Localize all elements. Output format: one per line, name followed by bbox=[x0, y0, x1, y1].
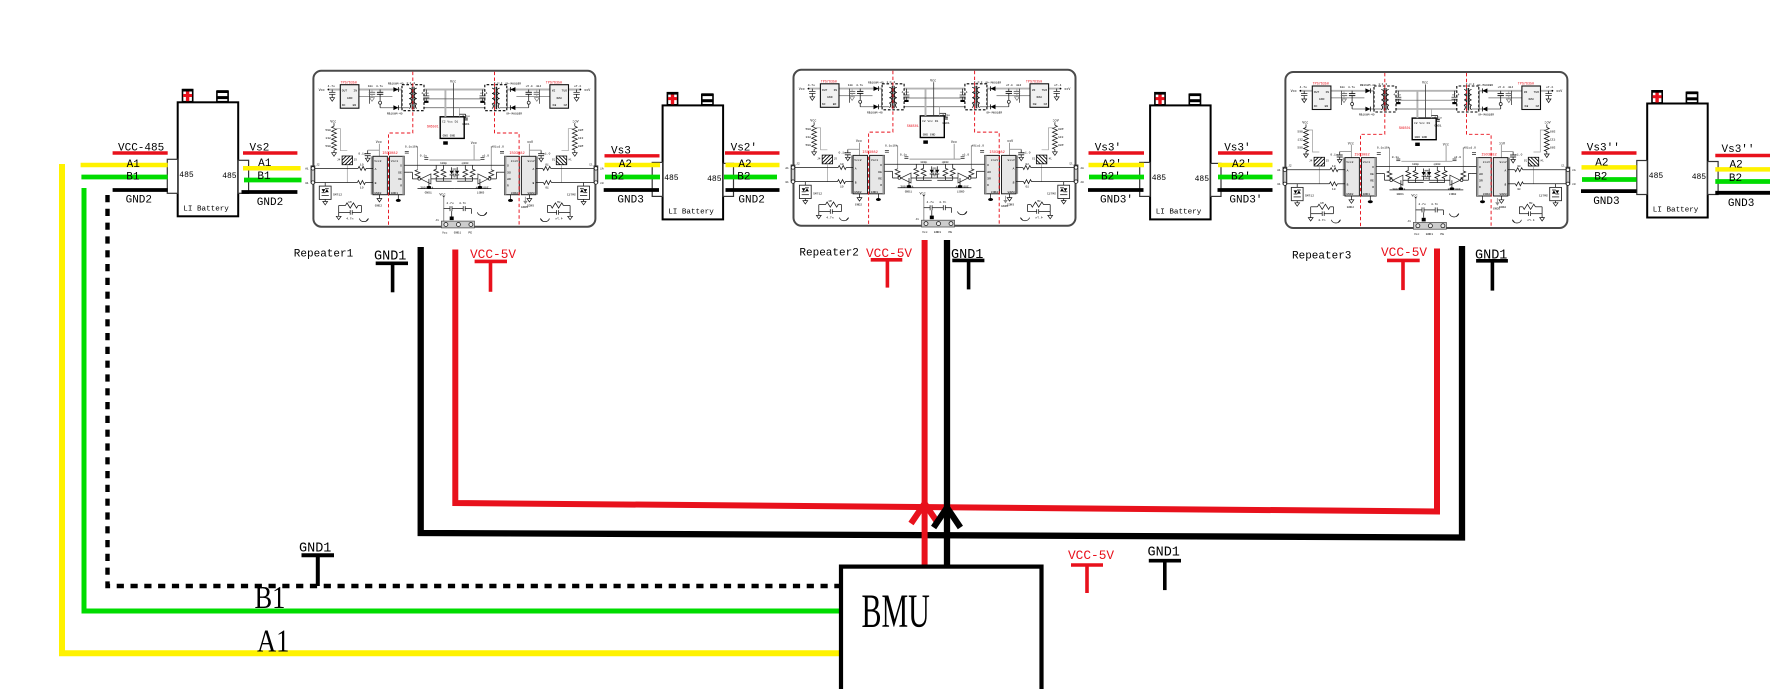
svg-text:Vs2': Vs2' bbox=[731, 143, 757, 155]
wire A1 bus (yellow) bbox=[62, 164, 841, 653]
battery1 right stubs bbox=[242, 143, 302, 210]
svg-text:GND3: GND3 bbox=[1728, 198, 1754, 210]
wire A2 bbox=[605, 163, 661, 168]
wire B2 bbox=[1715, 179, 1770, 184]
wire B1 bus (green) bbox=[84, 188, 841, 611]
battery1 left stubs bbox=[81, 143, 168, 207]
LI Battery 3 bbox=[1140, 92, 1221, 219]
svg-text:A2': A2' bbox=[1102, 159, 1122, 171]
battery3 right stubs bbox=[1218, 143, 1273, 207]
wire Vs2' bbox=[725, 151, 780, 154]
svg-text:VCC-485: VCC-485 bbox=[118, 143, 164, 155]
VCC-5V tap under repeater1 bbox=[470, 247, 516, 292]
GND1 tap under repeater2 bbox=[951, 248, 984, 289]
svg-text:VCC-5V: VCC-5V bbox=[1068, 548, 1114, 563]
wire GND3' bbox=[1088, 188, 1144, 192]
wire A2 bbox=[726, 163, 780, 168]
LI Battery 2 bbox=[652, 92, 733, 219]
svg-text:Repeater3: Repeater3 bbox=[1292, 251, 1351, 263]
wire Vs2 bbox=[243, 151, 297, 154]
GND1 tap on dashed wire bbox=[299, 542, 334, 587]
svg-text:GND2: GND2 bbox=[738, 195, 764, 207]
svg-text:Repeater1: Repeater1 bbox=[294, 249, 354, 261]
wire Vs3' bbox=[1089, 151, 1145, 154]
svg-text:B1: B1 bbox=[255, 581, 286, 616]
repeater U1 bbox=[305, 71, 603, 235]
svg-text:B2': B2' bbox=[1101, 171, 1121, 183]
svg-text:A2: A2 bbox=[619, 159, 632, 171]
GND1 tap under repeater1 bbox=[374, 250, 408, 293]
battery4 right stubs bbox=[1715, 144, 1770, 210]
svg-text:VCC-5V: VCC-5V bbox=[1381, 245, 1427, 260]
svg-text:A2: A2 bbox=[738, 159, 751, 171]
wire GND2 bbox=[242, 190, 298, 194]
wire B1 bbox=[244, 178, 302, 183]
wire GND3 bbox=[1715, 191, 1770, 195]
wire VCC-485 bbox=[113, 151, 168, 154]
svg-text:GND3: GND3 bbox=[1593, 196, 1619, 208]
svg-text:Vs3': Vs3' bbox=[1095, 143, 1121, 155]
svg-text:A1: A1 bbox=[258, 158, 272, 170]
svg-text:GND3: GND3 bbox=[617, 195, 643, 207]
svg-text:GND2: GND2 bbox=[257, 197, 283, 209]
GND1 tap near BMU bbox=[1148, 546, 1182, 591]
wire A1 bbox=[243, 166, 301, 171]
wire B2 bbox=[724, 175, 777, 180]
repeater U2 bbox=[785, 70, 1083, 234]
LI Battery 4 bbox=[1637, 90, 1718, 217]
VCC-5V drop to BMU (red) bbox=[922, 240, 928, 567]
svg-text:Repeater2: Repeater2 bbox=[799, 248, 858, 260]
wire GND3 bbox=[604, 188, 659, 192]
red junction arrow bbox=[911, 504, 938, 524]
svg-text:Vs3'': Vs3'' bbox=[1587, 143, 1620, 155]
svg-text:Vs3: Vs3 bbox=[611, 145, 631, 157]
svg-text:B2: B2 bbox=[737, 171, 750, 183]
wire GND3 bbox=[1581, 189, 1637, 193]
wire Vs3'' bbox=[1582, 151, 1637, 154]
battery3 left stubs bbox=[1088, 143, 1144, 207]
battery4 left stubs bbox=[1581, 143, 1637, 208]
svg-text:GND2: GND2 bbox=[126, 195, 152, 207]
LI Battery 1 bbox=[167, 89, 248, 216]
black junction arrow bbox=[934, 508, 961, 528]
VCC-5V tap near BMU bbox=[1068, 548, 1114, 593]
VCC-5V tap under repeater3 bbox=[1381, 245, 1427, 290]
repeater U3 bbox=[1277, 72, 1575, 236]
wire Vs3 bbox=[605, 154, 660, 157]
svg-text:B1: B1 bbox=[126, 171, 140, 183]
wire A2 bbox=[1715, 167, 1770, 172]
GND1 bus (black) bbox=[421, 246, 1462, 538]
GND1 tap under repeater3 bbox=[1475, 249, 1508, 291]
BMU block bbox=[841, 567, 1042, 689]
wire B2 bbox=[605, 175, 660, 180]
wire B2' bbox=[1218, 175, 1273, 180]
svg-text:GND3': GND3' bbox=[1229, 195, 1262, 207]
svg-text:GND1: GND1 bbox=[1148, 546, 1180, 561]
svg-text:B1: B1 bbox=[257, 171, 271, 183]
svg-text:A1: A1 bbox=[127, 159, 141, 171]
svg-text:B2': B2' bbox=[1231, 171, 1251, 183]
svg-text:A2: A2 bbox=[1595, 158, 1608, 170]
wire A2' bbox=[1218, 163, 1273, 168]
svg-text:Vs3': Vs3' bbox=[1224, 143, 1250, 155]
dashed comms wire bbox=[108, 195, 842, 586]
wire A2' bbox=[1089, 163, 1145, 168]
svg-text:B2: B2 bbox=[1729, 173, 1742, 185]
VCC-5V bus (red) bbox=[455, 249, 1437, 512]
wire A2 bbox=[1582, 165, 1637, 170]
svg-text:BMU: BMU bbox=[862, 584, 930, 638]
wire B1 stub bbox=[81, 175, 167, 180]
VCC-5V tap under repeater2 bbox=[866, 246, 912, 288]
battery2 right stubs bbox=[724, 143, 780, 207]
svg-text:Vs2: Vs2 bbox=[250, 143, 270, 155]
wire GND3' bbox=[1218, 188, 1273, 192]
wire B2' bbox=[1089, 175, 1144, 180]
svg-text:A2': A2' bbox=[1232, 159, 1252, 171]
wire GND2 bbox=[113, 188, 168, 192]
wire Vs3'' bbox=[1715, 154, 1770, 157]
GND1 drop to BMU (black) bbox=[944, 240, 950, 567]
battery2 left stubs bbox=[604, 145, 660, 206]
svg-text:B2: B2 bbox=[1594, 171, 1607, 183]
svg-text:A1: A1 bbox=[257, 624, 289, 659]
wire A1 stub bbox=[81, 163, 168, 168]
svg-text:GND3': GND3' bbox=[1100, 195, 1133, 207]
wire B2 bbox=[1582, 177, 1637, 182]
svg-text:Vs3'': Vs3'' bbox=[1722, 144, 1755, 156]
svg-text:B2: B2 bbox=[611, 171, 624, 183]
wire GND2 bbox=[726, 188, 780, 192]
svg-text:A2: A2 bbox=[1730, 160, 1743, 172]
wire Vs3' bbox=[1218, 151, 1273, 154]
